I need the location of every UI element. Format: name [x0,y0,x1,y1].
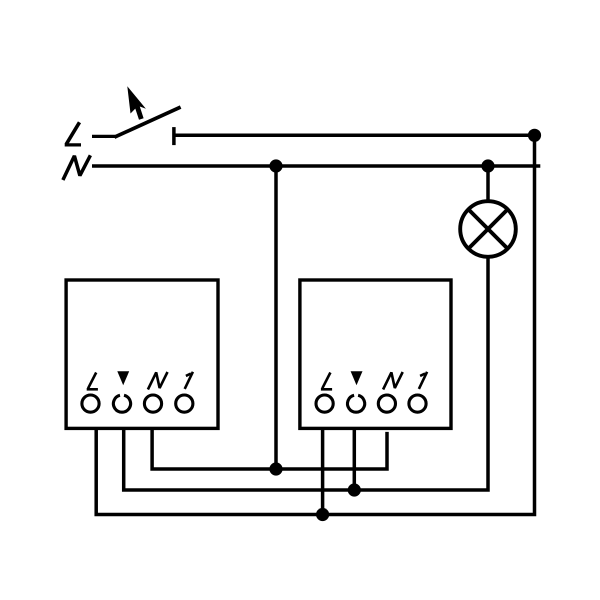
U2 terminal label L [321,373,332,390]
U2 arrow marker (dimmer output) [351,371,363,385]
U1 terminal label 1 [185,372,193,389]
label N (neutral feed, top left) [63,155,91,180]
U1 terminal N circle [144,395,161,412]
wire: lamp top lead [486,166,490,202]
cursor arrow (actuation pointer) [127,86,146,120]
node: N junction to bus 1 [269,159,282,172]
node: bus2 junction (U2 arrow terminal) [348,483,361,496]
lamp E1 [460,201,516,257]
wire: U2 L terminal drop to bus 3 [321,428,325,514]
wire: U1 N terminal down, bus 1, up to U2 N terminal [152,428,387,469]
label L (phase feed, top left) [65,122,81,145]
node: bus3 junction (U2 L terminal) [316,508,329,521]
U2 terminal 1 circle [409,395,426,412]
U2 terminal label 1 [419,372,427,389]
dimmer insert U2 (right box) [300,280,451,428]
switch S1 right contact tick [172,127,176,145]
node: N junction at lamp [481,159,494,172]
U1 arrow marker (dimmer output) [117,371,129,385]
U1 terminal L circle [82,395,99,412]
U1 terminal 1 circle [176,395,193,412]
wire: U1 L terminal down, bus 3, up to L junction [96,135,534,514]
wire: U2 arrow terminal drop to bus 2 [353,428,357,490]
wire: N feed line [92,164,540,168]
wire: N drop to bottom bus 1 [274,166,278,469]
U1 terminal arrow circle (gap at top) [113,395,130,412]
U2 terminal L circle [316,395,333,412]
U1 terminal label N [148,372,168,390]
U1 terminal label L [87,373,98,390]
wire: L feed line [174,134,534,138]
node: bus1 junction [269,462,282,475]
U2 terminal label N [383,372,403,390]
switch S1 left contact wire [92,135,115,138]
dimmer insert U1 (left box) [66,280,218,428]
node: L feed right junction [528,129,541,142]
U2 terminal N circle [378,395,395,412]
wire: U1 arrow terminal down, bus 2, up to lamp [124,257,488,490]
U2 terminal arrow circle (gap at top) [348,395,365,412]
switch S1 blade (open) [114,107,180,137]
